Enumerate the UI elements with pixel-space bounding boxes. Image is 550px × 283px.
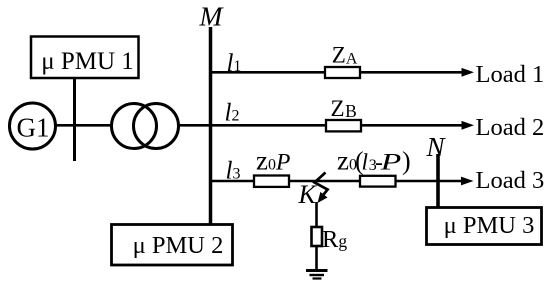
fault branch wire to Rg [315, 202, 318, 228]
svg-text:): ) [402, 147, 411, 176]
measurement tap of micro-PMU 1 [73, 78, 76, 161]
svg-text:K: K [298, 180, 318, 209]
impedance z0P (faulted section) [254, 176, 289, 187]
generator G1 [10, 103, 56, 149]
svg-text:Load 2: Load 2 [476, 114, 545, 141]
grounding resistor Rg [312, 227, 323, 246]
wire G1 to transformer [56, 124, 111, 127]
svg-text:Rg: Rg [322, 226, 347, 253]
feeder wire l3 [210, 180, 463, 183]
svg-text:P: P [379, 150, 401, 176]
svg-text:G1: G1 [17, 113, 50, 143]
micro-PMU 2 box [112, 225, 233, 266]
svg-text:Load 3: Load 3 [476, 167, 545, 194]
bus M [209, 27, 213, 224]
fault bolt K [315, 173, 328, 204]
ground symbol [306, 271, 328, 279]
wire transformer to bus M [179, 124, 210, 127]
svg-text:M: M [199, 1, 225, 32]
micro-PMU 3 box [427, 208, 542, 245]
feeder wire l1 [210, 71, 463, 74]
svg-text:μ PMU 1: μ PMU 1 [41, 48, 134, 75]
value label z0(l3-P) [337, 146, 411, 176]
svg-text:l: l [362, 150, 369, 176]
svg-text:N: N [426, 132, 447, 162]
svg-text:Load 1: Load 1 [476, 61, 545, 88]
impedance ZA [325, 67, 360, 78]
arrowhead to Load 3 [461, 177, 474, 186]
feeder wire l2 [210, 124, 463, 127]
bus N [436, 154, 440, 207]
svg-text:μ PMU 3: μ PMU 3 [444, 212, 535, 239]
wire Rg to ground [315, 247, 318, 271]
impedance z0(l3-P) [360, 176, 396, 187]
impedance ZB [326, 120, 361, 131]
arrowhead to Load 2 [462, 121, 475, 130]
micro-PMU 1 box [31, 37, 139, 79]
svg-text:μ PMU 2: μ PMU 2 [133, 232, 224, 259]
transformer T1 [112, 104, 179, 149]
arrowhead to Load 1 [462, 68, 475, 77]
